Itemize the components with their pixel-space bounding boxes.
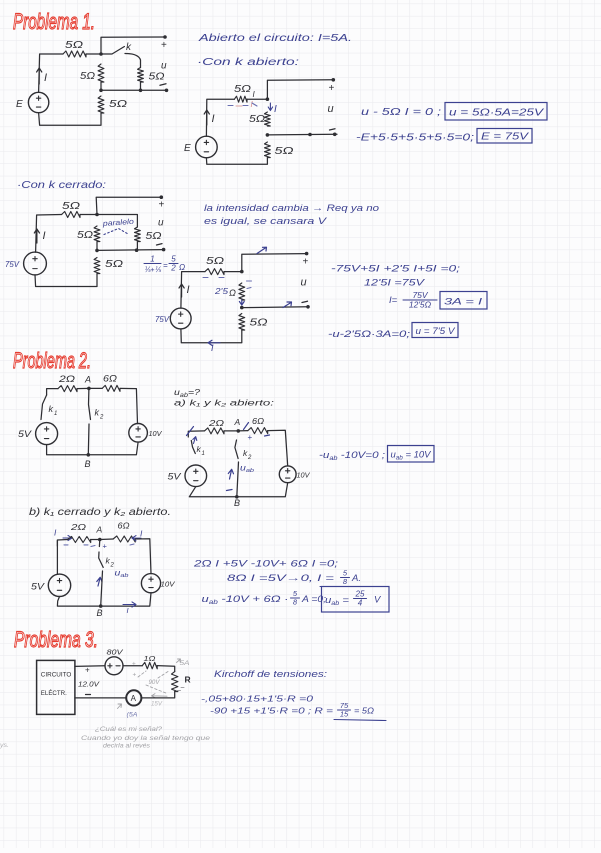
heading Problema 2 bbox=[13, 348, 91, 373]
equation I = 75V/12.5Ω bbox=[389, 290, 437, 310]
wire bottom bbox=[57, 593, 151, 615]
voltage source 75V bbox=[5, 252, 46, 275]
voltage source 10V bbox=[129, 424, 163, 443]
svg-text:B: B bbox=[234, 498, 240, 508]
wire bbox=[206, 99, 234, 136]
svg-text:5Ω: 5Ω bbox=[77, 230, 93, 241]
svg-text:I: I bbox=[187, 284, 190, 296]
wire bottom bbox=[189, 483, 287, 497]
svg-text:15: 15 bbox=[340, 710, 349, 719]
label u bbox=[301, 277, 307, 289]
wire top bbox=[75, 665, 142, 668]
equation -120+80·15+15R=0 bbox=[201, 694, 313, 704]
resistor 2Ω bbox=[58, 374, 77, 392]
svg-text:ys.: ys. bbox=[0, 743, 9, 749]
node A bbox=[91, 525, 108, 551]
svg-text:-,05+80·15+1'5·R =0: -,05+80·15+1'5·R =0 bbox=[201, 694, 313, 704]
resistor 5Ω middle-left bbox=[77, 226, 100, 242]
wire top left bbox=[188, 431, 204, 437]
svg-text:-E+5·5+5·5+5·5=0;: -E+5·5+5·5+5·5=0; bbox=[356, 133, 474, 144]
resistor 6Ω bbox=[89, 374, 120, 392]
resistor 5Ω top bbox=[234, 84, 256, 102]
svg-text:-u-2'5Ω·3A=0;: -u-2'5Ω·3A=0; bbox=[328, 329, 410, 340]
boxed result u=7.5V bbox=[412, 323, 458, 338]
boxed result u = 25V bbox=[445, 103, 547, 121]
equation u - 5Ω I = 0 bbox=[361, 107, 441, 118]
equation 8ΩI=5V, I=5/8A bbox=[227, 569, 371, 587]
svg-text:a) k₁ y k₂ abierto:: a) k₁ y k₂ abierto: bbox=[174, 398, 275, 408]
svg-text:⅕+⅕: ⅕+⅕ bbox=[144, 265, 162, 274]
svg-text:8Ω I =5V→0, I =: 8Ω I =5V→0, I = bbox=[227, 573, 335, 584]
svg-text:la intensidad cambia → Req ya: la intensidad cambia → Req ya no bbox=[204, 203, 379, 214]
node A bbox=[224, 417, 241, 433]
blue label uab with arrow bbox=[97, 569, 129, 587]
equation -75V+5I+2.5I+5I=0 bbox=[331, 264, 461, 275]
svg-text:A: A bbox=[131, 694, 137, 703]
svg-text:+: + bbox=[161, 40, 167, 51]
label u and - sign bbox=[328, 103, 336, 130]
svg-text:2: 2 bbox=[170, 264, 176, 273]
svg-text:5Ω: 5Ω bbox=[65, 40, 84, 51]
svg-text:12'5I =75V: 12'5I =75V bbox=[364, 278, 426, 289]
boxed result E = 75V bbox=[477, 129, 532, 144]
wire to + terminal bbox=[242, 254, 307, 272]
svg-text:Abierto el circuito: I=5A.: Abierto el circuito: I=5A. bbox=[198, 33, 352, 44]
resistor 5Ω top bbox=[203, 256, 225, 278]
blue arrow on top rail bbox=[257, 247, 267, 253]
voltage source 5V bbox=[168, 465, 207, 487]
resistor 1Ω bbox=[142, 654, 157, 669]
terminal - of u bbox=[160, 84, 168, 92]
node B bbox=[97, 604, 103, 618]
resistor 5Ω bottom bbox=[265, 142, 295, 158]
wire middle to B bbox=[101, 571, 103, 606]
blue label uab with arrow bbox=[227, 464, 255, 491]
wire top right corner bbox=[157, 666, 175, 672]
blue open mark k1 bbox=[187, 427, 197, 444]
resistor R4 5Ω bottom bbox=[98, 96, 127, 113]
current arrow I bbox=[34, 229, 45, 243]
svg-text:u = 5Ω·5A=25V: u = 5Ω·5A=25V bbox=[449, 108, 545, 119]
wire node row to - terminal bbox=[267, 133, 337, 137]
svg-text:u: u bbox=[158, 218, 164, 229]
svg-text:E: E bbox=[184, 143, 191, 154]
note Con k cerrado bbox=[17, 180, 106, 191]
svg-text:5: 5 bbox=[171, 255, 176, 264]
svg-text:5V: 5V bbox=[168, 472, 182, 482]
svg-text:+: + bbox=[85, 666, 90, 675]
voltage source 80V bbox=[105, 648, 124, 675]
pencil label 5A bbox=[177, 659, 190, 667]
resistor 6Ω bbox=[100, 521, 135, 546]
resistor R2 5Ω middle bbox=[80, 64, 104, 82]
svg-text:u - 5Ω I = 0 ;: u - 5Ω I = 0 ; bbox=[361, 107, 441, 118]
svg-text:E = 75V: E = 75V bbox=[481, 132, 530, 143]
node B bbox=[234, 462, 240, 508]
svg-text:2: 2 bbox=[247, 455, 252, 461]
wire top left bbox=[57, 540, 67, 547]
svg-text:u = 7'5 V: u = 7'5 V bbox=[416, 326, 457, 337]
node junction bbox=[240, 270, 244, 274]
switch k2 bbox=[99, 540, 115, 569]
blue current label I right bbox=[132, 529, 143, 541]
node bbox=[240, 306, 244, 310]
note a) k1 y k2 abierto bbox=[174, 398, 275, 408]
voltage source E bbox=[184, 136, 217, 158]
svg-text:(5A: (5A bbox=[127, 712, 138, 719]
label u bbox=[161, 61, 167, 72]
svg-text:5Ω: 5Ω bbox=[105, 259, 124, 270]
wire bbox=[86, 53, 101, 55]
svg-text:1: 1 bbox=[54, 411, 57, 417]
svg-text:I: I bbox=[127, 606, 129, 615]
svg-text:75V: 75V bbox=[155, 315, 170, 324]
wire bottom left bbox=[75, 697, 126, 699]
svg-text:Problema 3.: Problema 3. bbox=[14, 627, 98, 652]
wire node row bbox=[95, 242, 165, 253]
svg-text:2Ω: 2Ω bbox=[58, 374, 76, 384]
svg-text:6Ω: 6Ω bbox=[252, 416, 265, 426]
voltage source 10V bbox=[141, 574, 176, 593]
svg-text:+: + bbox=[248, 433, 253, 442]
svg-text:5V: 5V bbox=[18, 429, 32, 439]
svg-text:+: + bbox=[132, 661, 136, 668]
resistor R1 5Ω top bbox=[63, 40, 86, 57]
node bbox=[266, 133, 270, 137]
switch k2 bbox=[88, 388, 104, 454]
wire bbox=[181, 272, 205, 309]
svg-text:2'5: 2'5 bbox=[214, 287, 229, 296]
svg-text:I: I bbox=[274, 104, 277, 115]
wire top left bbox=[47, 389, 58, 395]
switch k1 bbox=[41, 395, 57, 420]
wire bbox=[247, 98, 267, 100]
equation 2ΩI+5V-10V+6ΩI=0 bbox=[193, 559, 339, 570]
svg-text:decirla al revés: decirla al revés bbox=[103, 743, 150, 750]
svg-text:5Ω: 5Ω bbox=[149, 72, 165, 83]
note Abierto el circuito bbox=[198, 33, 352, 44]
svg-text:Kirchoff de tensiones:: Kirchoff de tensiones: bbox=[214, 669, 327, 680]
svg-text:I=: I= bbox=[389, 295, 398, 306]
resistor 2.5Ω middle bbox=[214, 281, 252, 305]
note b) k1 cerrado y k2 abierto bbox=[29, 507, 171, 518]
svg-text:3A = I: 3A = I bbox=[444, 297, 483, 308]
wire to + terminal bbox=[267, 80, 333, 99]
svg-text:4: 4 bbox=[358, 599, 363, 608]
equation parallel resistance 5/2 bbox=[144, 255, 185, 275]
svg-text:6Ω: 6Ω bbox=[103, 374, 117, 384]
svg-text:6Ω: 6Ω bbox=[118, 521, 131, 531]
svg-text:b) k₁ cerrado y k₂ abierto.: b) k₁ cerrado y k₂ abierto. bbox=[29, 507, 171, 518]
svg-text:10V: 10V bbox=[149, 431, 163, 438]
wire bbox=[39, 54, 63, 92]
label u and - sign bbox=[157, 218, 165, 246]
svg-text:A: A bbox=[84, 375, 91, 385]
svg-text:B: B bbox=[85, 459, 91, 469]
svg-text:5Ω: 5Ω bbox=[234, 84, 252, 95]
svg-text:Problema 1.: Problema 1. bbox=[13, 9, 95, 34]
svg-text:·Con k abierto:: ·Con k abierto: bbox=[197, 57, 299, 68]
svg-text:A.: A. bbox=[351, 573, 361, 584]
equation -E+5·5+5·5+5·5=0 bbox=[356, 133, 474, 144]
svg-text:R: R bbox=[185, 675, 191, 685]
note Con k abierto bbox=[197, 57, 299, 68]
svg-text:= 5Ω: = 5Ω bbox=[354, 706, 375, 716]
resistor 6Ω bbox=[238, 416, 267, 434]
svg-text:5A: 5A bbox=[180, 660, 190, 667]
wire bottom right bbox=[141, 692, 175, 698]
svg-text:12'5Ω: 12'5Ω bbox=[409, 300, 432, 310]
svg-text:A =0;: A =0; bbox=[301, 594, 326, 605]
wire bottom bbox=[47, 442, 139, 455]
svg-text:-90 +15 +1'5·R =0 ; R =: -90 +15 +1'5·R =0 ; R = bbox=[210, 706, 333, 716]
resistor R3 5Ω right bbox=[138, 68, 165, 83]
label 12.0V with polarity bbox=[78, 666, 101, 695]
wire bottom bbox=[35, 274, 97, 287]
resistor 2Ω bbox=[68, 522, 91, 543]
svg-text:+: + bbox=[103, 542, 108, 551]
wire bottom bbox=[181, 329, 242, 353]
svg-text:5Ω: 5Ω bbox=[62, 201, 81, 212]
resistor 5Ω bottom bbox=[239, 314, 268, 331]
svg-text:5Ω: 5Ω bbox=[249, 114, 265, 125]
boxed result 3A = I bbox=[440, 292, 487, 310]
svg-text:CIRCUITO: CIRCUITO bbox=[41, 672, 72, 679]
svg-text:-uab -10V=0 ;: -uab -10V=0 ; bbox=[319, 450, 385, 462]
svg-text:A: A bbox=[96, 525, 103, 535]
heading Problema 3 bbox=[14, 627, 98, 652]
switch k2 bbox=[235, 440, 252, 461]
svg-text:u: u bbox=[161, 61, 167, 72]
resistor R bbox=[172, 672, 191, 692]
svg-text:15V: 15V bbox=[151, 702, 163, 708]
wire closed switch to right branch bbox=[97, 215, 137, 228]
pencil note 5A below ammeter bbox=[118, 704, 138, 719]
svg-text:10V: 10V bbox=[297, 473, 311, 480]
annotation paralelo bbox=[101, 217, 134, 235]
svg-text:2Ω: 2Ω bbox=[70, 522, 87, 532]
terminal + of u bbox=[161, 35, 167, 51]
svg-text:Ω: Ω bbox=[179, 263, 185, 272]
svg-text:12.0V: 12.0V bbox=[78, 682, 101, 689]
node B bbox=[85, 453, 91, 469]
svg-text:1Ω: 1Ω bbox=[144, 654, 156, 663]
resistor 2Ω bbox=[205, 418, 225, 434]
terminal + bbox=[329, 78, 336, 94]
node A bbox=[77, 375, 91, 391]
node junction bbox=[99, 52, 103, 56]
switch k1 bbox=[191, 441, 205, 458]
svg-text:5Ω: 5Ω bbox=[80, 71, 95, 82]
node junction bbox=[95, 213, 99, 217]
pencil red I marks bbox=[236, 100, 254, 109]
wire bottom bbox=[206, 158, 267, 165]
wire top right bbox=[120, 388, 138, 423]
resistor 5Ω bottom bbox=[94, 258, 123, 274]
resistor 5Ω middle-right bbox=[135, 227, 162, 242]
resistor 5Ω middle bbox=[249, 112, 270, 126]
voltage source 75V bbox=[155, 308, 191, 329]
svg-text:2Ω: 2Ω bbox=[208, 418, 225, 428]
svg-text:-75V+5I +2'5 I+5I =0;: -75V+5I +2'5 I+5I =0; bbox=[331, 264, 461, 275]
svg-text:5Ω: 5Ω bbox=[250, 318, 269, 329]
current arrow I bbox=[179, 284, 190, 297]
svg-text:2: 2 bbox=[99, 415, 104, 421]
heading Problema 1 bbox=[13, 9, 95, 34]
svg-text:I: I bbox=[44, 72, 47, 84]
pencil note question bbox=[81, 726, 211, 750]
resistor 5Ω top bbox=[62, 201, 81, 218]
svg-text:A: A bbox=[234, 417, 241, 427]
blue tick marks bbox=[228, 103, 257, 106]
svg-text:10V: 10V bbox=[161, 582, 176, 589]
svg-text:Problema 2.: Problema 2. bbox=[13, 348, 91, 373]
current arrow I bbox=[204, 110, 214, 125]
ammeter A bbox=[126, 690, 141, 705]
note la intensidad cambia bbox=[204, 203, 379, 227]
svg-text:1: 1 bbox=[202, 451, 205, 457]
boxed result uab=25/4 V bbox=[322, 587, 390, 613]
svg-text:1: 1 bbox=[150, 255, 154, 264]
svg-text:k: k bbox=[95, 408, 100, 418]
terminal + bbox=[303, 252, 309, 268]
svg-text:u: u bbox=[301, 277, 307, 289]
wire bbox=[224, 271, 242, 273]
svg-text:90V: 90V bbox=[149, 680, 161, 686]
svg-text:B: B bbox=[97, 608, 103, 618]
svg-text:5Ω: 5Ω bbox=[109, 99, 128, 110]
svg-text:I: I bbox=[43, 230, 46, 242]
blue current label I left bbox=[54, 528, 88, 545]
svg-text:5Ω: 5Ω bbox=[146, 231, 162, 242]
svg-text:5V: 5V bbox=[31, 582, 45, 592]
svg-text:k: k bbox=[49, 404, 54, 414]
equation uab-10V+6Ω·5/8A=0 bbox=[202, 589, 327, 607]
svg-text:=: = bbox=[163, 261, 168, 270]
svg-text:+: + bbox=[159, 200, 165, 211]
svg-text:80V: 80V bbox=[107, 648, 124, 657]
current arrow I bbox=[37, 68, 47, 84]
svg-text:2Ω I +5V -10V+ 6Ω I =0;: 2Ω I +5V -10V+ 6Ω I =0; bbox=[193, 559, 339, 570]
pencil marks 90V + - and scribbles bbox=[132, 661, 184, 708]
blue open mark k2 bbox=[244, 423, 270, 443]
boxed result uab=10V bbox=[388, 446, 435, 463]
switch k bbox=[101, 42, 141, 68]
voltage source E bbox=[16, 92, 49, 112]
wire node row to - terminal bbox=[242, 301, 310, 308]
note uab=? bbox=[174, 387, 200, 399]
svg-text:¿Cuál es mi señal?: ¿Cuál es mi señal? bbox=[95, 726, 163, 733]
svg-text:I: I bbox=[212, 113, 215, 125]
svg-text:5Ω: 5Ω bbox=[275, 146, 295, 157]
voltage source 5V bbox=[31, 541, 71, 597]
wire to + terminal bbox=[96, 197, 161, 214]
equation -90+15+15R=0, R=75/15=5Ω bbox=[210, 701, 386, 721]
voltage source 5V bbox=[18, 423, 58, 445]
svg-text:Ω: Ω bbox=[229, 288, 236, 298]
svg-text:25: 25 bbox=[355, 590, 365, 599]
equation -u-2.5·3A=0 bbox=[328, 329, 410, 340]
terminal + bbox=[159, 195, 165, 210]
pencil stray mark left edge bbox=[0, 743, 9, 749]
svg-text:75V: 75V bbox=[5, 260, 20, 269]
svg-text:+: + bbox=[303, 257, 309, 268]
wire bbox=[36, 215, 62, 253]
svg-text:E: E bbox=[16, 99, 23, 110]
wire bbox=[80, 214, 97, 216]
svg-text:·Con k cerrado:: ·Con k cerrado: bbox=[17, 180, 106, 191]
svg-text:+: + bbox=[329, 83, 335, 94]
svg-text:u: u bbox=[328, 103, 334, 115]
wire top right bbox=[268, 430, 288, 466]
svg-text:es igual, se cansara V: es igual, se cansara V bbox=[204, 216, 328, 227]
wire to + terminal bbox=[101, 37, 165, 54]
wire node row bbox=[99, 82, 166, 92]
equation -uab-10V=0 bbox=[319, 450, 385, 462]
svg-text:75V: 75V bbox=[412, 290, 428, 300]
note Kirchoff de tensiones bbox=[214, 669, 327, 680]
svg-text:ELÉCTR.: ELÉCTR. bbox=[41, 688, 67, 697]
block circuito electrico bbox=[37, 660, 75, 714]
blue current arrow I down bbox=[268, 103, 277, 115]
wire bottom bbox=[39, 113, 101, 126]
voltage source 10V bbox=[279, 466, 311, 483]
wire top right bbox=[135, 539, 151, 574]
svg-text:Cuando yo doy la señal tengo q: Cuando yo doy la señal tengo que bbox=[81, 735, 211, 742]
svg-text:5Ω: 5Ω bbox=[206, 256, 225, 267]
node junction bbox=[266, 97, 270, 101]
equation 12.5I=75V bbox=[364, 278, 426, 289]
svg-text:+: + bbox=[133, 672, 137, 679]
